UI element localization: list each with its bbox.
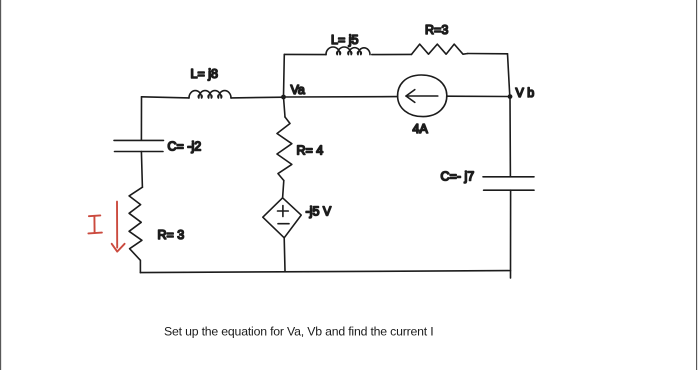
capacitor C1 C=-j2 xyxy=(114,139,164,141)
red current arrow I xyxy=(116,202,118,248)
wire Va down to R4 xyxy=(284,97,286,117)
resistor R3 R=4 xyxy=(277,117,292,181)
current source arrow xyxy=(406,95,438,97)
minus sign xyxy=(278,223,289,225)
wire bottom rail xyxy=(140,271,510,273)
capacitor C2 C=-j7 xyxy=(483,176,534,178)
svg-text:R= 3: R= 3 xyxy=(158,228,185,242)
wire right vertical down to Vb xyxy=(508,54,510,97)
wire top branch left segment xyxy=(284,53,326,55)
svg-text:C=- j7: C=- j7 xyxy=(441,170,475,184)
node Va xyxy=(281,95,286,100)
resistor R1 R=3 left xyxy=(129,187,142,272)
wire top-left horizontal (corner to coil) xyxy=(142,97,190,98)
svg-text:R= 4: R= 4 xyxy=(297,144,324,158)
wire coil to resistor xyxy=(372,53,412,55)
svg-text:Va: Va xyxy=(291,83,305,97)
wire Va up to top branch xyxy=(283,54,286,96)
svg-text:V b: V b xyxy=(516,86,535,100)
wire capacitor to resistor xyxy=(141,152,142,188)
current source 4A circle xyxy=(398,75,447,117)
node Vb xyxy=(508,94,513,99)
svg-text:-j5 V: -j5 V xyxy=(306,205,332,219)
page right border xyxy=(696,0,698,370)
svg-text:C= -j2: C= -j2 xyxy=(168,140,202,154)
wire dependent source to bottom rail xyxy=(283,238,286,271)
wire current source to Vb xyxy=(447,95,508,97)
page left border xyxy=(0,0,2,370)
wire Vb down to capacitor xyxy=(509,97,511,177)
wire Va to current source xyxy=(284,96,398,98)
wire left vertical (corner to capacitor) xyxy=(140,97,142,140)
svg-text:R=3: R=3 xyxy=(425,23,448,37)
plus sign xyxy=(278,210,289,212)
svg-text:4A: 4A xyxy=(413,122,429,136)
red label I xyxy=(89,214,100,217)
wire R4 to dependent source xyxy=(283,181,284,198)
inductor L2 L=j5 xyxy=(326,47,370,55)
wire coil to Va xyxy=(231,96,284,99)
inductor L1 L=j8 xyxy=(189,91,231,98)
wire resistor to top-right corner xyxy=(468,53,508,55)
svg-text:L= j8: L= j8 xyxy=(191,67,219,81)
dependent source U1 diamond xyxy=(263,198,301,238)
svg-text:Set up the equation for Va, Vb: Set up the equation for Va, Vb and find … xyxy=(164,324,433,338)
svg-text:L= j5: L= j5 xyxy=(331,33,359,47)
wire capacitor down past bottom xyxy=(510,190,512,278)
resistor R2 R=3 top xyxy=(412,44,468,54)
